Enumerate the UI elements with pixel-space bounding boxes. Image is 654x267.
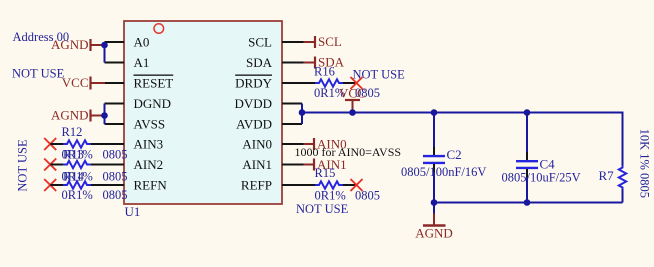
resistor R12 (63, 140, 91, 147)
junction dot C4 bottom (524, 199, 531, 206)
svg-text:RESET: RESET (134, 76, 174, 91)
port AGND (A0/A1) (51, 37, 105, 52)
port AIN1 (304, 157, 347, 172)
pin AIN2 wire (91, 164, 124, 166)
capacitor C4 (516, 113, 538, 203)
capacitor C2 (423, 113, 445, 203)
svg-text:R14: R14 (63, 170, 85, 184)
svg-text:AIN3: AIN3 (134, 137, 164, 152)
junction dot VCC stem (349, 109, 356, 116)
svg-text:DGND: DGND (134, 96, 172, 111)
svg-text:REFP: REFP (241, 178, 272, 193)
pin REFP wire (282, 184, 315, 186)
svg-text:0R1%: 0R1% (62, 188, 93, 202)
svg-text:0805: 0805 (103, 170, 128, 184)
resistor R7 (619, 166, 626, 190)
svg-text:DVDD: DVDD (234, 96, 272, 111)
svg-text:AIN2: AIN2 (134, 157, 164, 172)
no-connect X (AIN3) (44, 138, 56, 150)
junction dot DVDD (299, 109, 306, 116)
svg-text:SCL: SCL (248, 35, 272, 50)
pin RESET (105, 82, 124, 84)
wire X to R13 (50, 164, 63, 166)
pin A0 (105, 41, 125, 43)
pin DVDD (282, 103, 302, 105)
svg-text:0805/100nF/16V: 0805/100nF/16V (401, 165, 486, 179)
pin SCL (282, 41, 304, 43)
junction dot A0 group (101, 42, 108, 49)
svg-text:1000 for AIN0=AVSS: 1000 for AIN0=AVSS (295, 145, 402, 159)
resistor R15 (315, 181, 343, 188)
pin SDA (282, 62, 304, 64)
pin DRDY wire (282, 82, 315, 84)
svg-text:AVDD: AVDD (236, 117, 272, 132)
no-connect X (REFP) (351, 179, 363, 191)
power port VCC (339, 86, 366, 113)
svg-text:R13: R13 (63, 148, 84, 162)
pin AVSS (105, 123, 125, 125)
svg-text:0805: 0805 (103, 188, 128, 202)
wire R16 to X (343, 82, 357, 84)
svg-text:10K 1% 0805: 10K 1% 0805 (638, 129, 652, 198)
wire main supply bus (302, 112, 623, 114)
pin AIN3 wire (91, 143, 124, 145)
svg-text:VCC: VCC (62, 75, 89, 90)
pin DGND (105, 103, 125, 105)
wire R15 to X (343, 184, 357, 186)
svg-text:R15: R15 (315, 166, 336, 180)
svg-text:NOT USE: NOT USE (12, 67, 65, 81)
wire X to R14 (50, 184, 63, 186)
port SCL (304, 34, 342, 49)
svg-text:0805/10uF/25V: 0805/10uF/25V (502, 171, 581, 185)
svg-text:C2: C2 (447, 147, 462, 162)
pin AIN1 (282, 164, 304, 166)
port VCC (RESET) (62, 75, 105, 90)
power port AGND (bottom) (415, 203, 453, 241)
pin AVDD (282, 123, 302, 125)
no-connect X (REFN) (44, 179, 56, 191)
label R15 value (315, 189, 381, 203)
svg-text:0805: 0805 (355, 189, 380, 203)
svg-text:NOT USE: NOT USE (16, 139, 30, 192)
svg-text:SCL: SCL (318, 34, 342, 49)
svg-text:AIN0: AIN0 (242, 137, 272, 152)
svg-text:R12: R12 (62, 125, 83, 139)
svg-text:AIN1: AIN1 (242, 157, 272, 172)
resistor R13 (63, 161, 91, 168)
junction dot DGND group (101, 112, 108, 119)
svg-text:NOT USE: NOT USE (353, 68, 406, 82)
wire DVDD-AVDD vertical (301, 104, 303, 125)
IC U1 (ADC) (124, 21, 282, 204)
no-connect X (AIN2) (44, 159, 56, 171)
label R16 value (314, 86, 380, 100)
svg-text:AGND: AGND (415, 226, 453, 241)
label R14 value (62, 188, 128, 202)
junction dot C4 top (524, 109, 531, 116)
wire right vertical top (622, 112, 624, 167)
port AGND (DGND/AVSS) (51, 107, 105, 122)
resistor R14 (63, 181, 91, 188)
svg-text:C4: C4 (540, 157, 556, 172)
svg-text:0R1%: 0R1% (315, 189, 346, 203)
svg-text:VCC: VCC (339, 86, 366, 101)
svg-text:Address 00: Address 00 (13, 30, 70, 44)
label R14 + R13 value (62, 170, 128, 184)
pin A1 (105, 62, 125, 64)
pin AIN0 (282, 143, 304, 145)
svg-text:DRDY: DRDY (235, 76, 272, 91)
svg-text:R16: R16 (314, 65, 335, 79)
svg-text:REFN: REFN (134, 178, 168, 193)
wire DGND-AVSS vertical (104, 104, 106, 125)
port SDA (304, 54, 345, 69)
svg-text:AGND: AGND (51, 107, 89, 122)
wire X to R12 (50, 143, 63, 145)
pin REFN wire (91, 184, 124, 186)
svg-text:R7: R7 (599, 168, 615, 183)
svg-text:U1: U1 (125, 204, 141, 219)
no-connect X (DRDY) (351, 77, 363, 89)
svg-text:SDA: SDA (246, 55, 273, 70)
junction dot C2 bottom (431, 199, 438, 206)
wire A0-A1 vertical (104, 42, 106, 63)
svg-text:NOT USE: NOT USE (296, 202, 349, 216)
wire right vertical bottom (622, 189, 624, 203)
junction dot C2 top (431, 109, 438, 116)
svg-text:A0: A0 (134, 35, 150, 50)
resistor R16 (315, 79, 343, 86)
svg-text:A1: A1 (134, 55, 150, 70)
wire bottom bus (434, 202, 623, 204)
svg-text:0805: 0805 (103, 148, 128, 162)
label R13 + R12 value (62, 148, 128, 162)
svg-text:AVSS: AVSS (134, 117, 166, 132)
port AIN0 (304, 136, 347, 151)
